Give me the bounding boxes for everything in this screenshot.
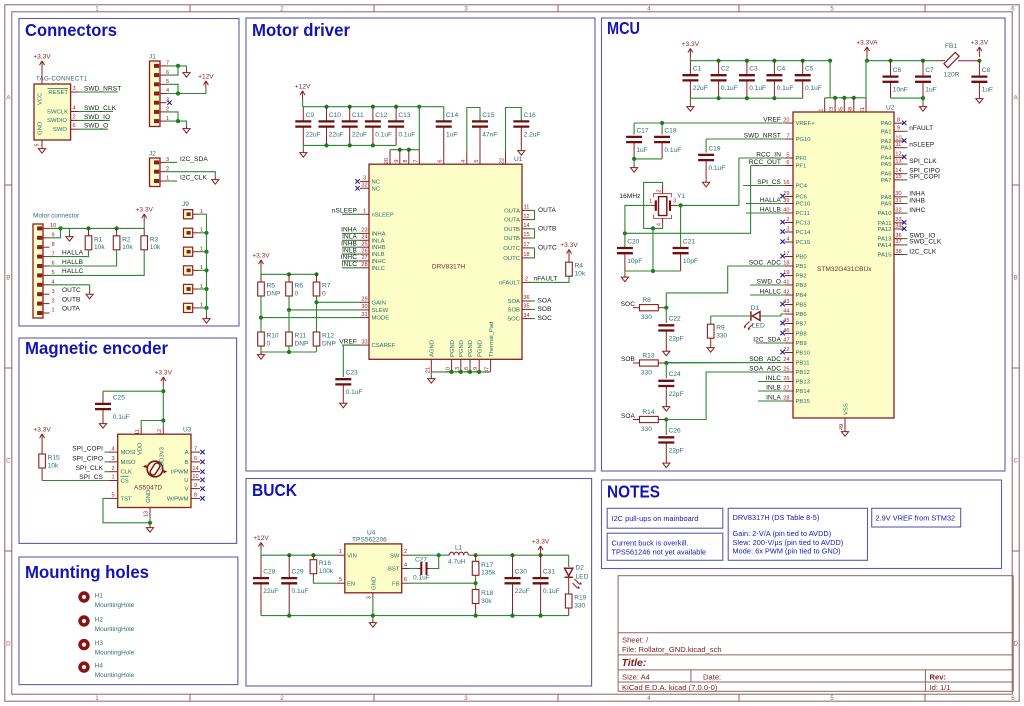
svg-text:4: 4 <box>461 159 467 162</box>
svg-text:R2: R2 <box>122 236 131 243</box>
wire <box>690 97 802 99</box>
pin 4 MOSI <box>109 451 118 453</box>
wire <box>143 222 145 228</box>
wire <box>261 615 569 617</box>
svg-text:C20: C20 <box>627 238 639 245</box>
svg-text:+3.3V: +3.3V <box>155 370 173 377</box>
ground <box>703 180 710 187</box>
wire <box>506 108 522 152</box>
svg-text:1uF: 1uF <box>982 87 993 94</box>
pin 13 PA5 <box>894 163 904 165</box>
svg-text:MISO: MISO <box>121 460 136 466</box>
pin 31 PA9 <box>894 203 904 205</box>
svg-text:OUTA: OUTA <box>538 207 557 214</box>
connector J1 body <box>150 61 161 127</box>
pin 36 PA13 <box>894 238 904 240</box>
svg-text:5: 5 <box>35 143 41 146</box>
pin 44 PB6 <box>785 313 793 315</box>
wire <box>825 97 866 99</box>
no-connect <box>780 321 784 325</box>
wire <box>41 79 43 84</box>
junction <box>660 121 664 125</box>
svg-text:14: 14 <box>192 466 198 472</box>
svg-text:R10: R10 <box>267 333 279 340</box>
svg-text:1: 1 <box>649 198 652 204</box>
no-connect <box>200 478 204 482</box>
driver U1 body <box>369 164 522 359</box>
no-connect <box>902 155 906 159</box>
wire <box>760 314 785 316</box>
svg-text:HALLA: HALLA <box>62 249 84 256</box>
pin 25 PB12 <box>785 371 793 373</box>
wire <box>681 158 739 205</box>
junction <box>348 143 352 147</box>
wire <box>676 205 681 248</box>
svg-text:INLC: INLC <box>372 266 386 272</box>
svg-text:LED: LED <box>576 574 589 581</box>
svg-text:INLB: INLB <box>372 252 385 258</box>
wire <box>198 269 207 271</box>
svg-text:C21: C21 <box>683 238 695 245</box>
svg-text:OUTB: OUTB <box>62 296 80 303</box>
wire <box>390 149 419 151</box>
svg-text:30: 30 <box>361 304 367 310</box>
svg-text:0.1uF: 0.1uF <box>708 165 725 172</box>
svg-text:I2C pull-ups on mainboard: I2C pull-ups on mainboard <box>612 514 699 523</box>
svg-text:+3.3V: +3.3V <box>252 253 270 260</box>
svg-text:3: 3 <box>363 176 366 182</box>
svg-text:1: 1 <box>819 108 825 111</box>
ground <box>707 345 714 352</box>
pin 1 nSLEEP <box>360 213 369 215</box>
svg-text:nFAULT: nFAULT <box>909 125 933 132</box>
power +3.3V <box>161 377 166 385</box>
ground <box>66 234 73 241</box>
pin 21 <box>865 98 867 112</box>
pin 12 VDD3V3 stub <box>162 427 164 434</box>
svg-text:MountingHole: MountingHole <box>95 602 135 609</box>
svg-text:47nF: 47nF <box>482 131 497 138</box>
svg-text:2.9V VREF from STM32: 2.9V VREF from STM32 <box>876 513 956 522</box>
svg-text:330: 330 <box>641 314 652 321</box>
svg-text:17: 17 <box>523 242 529 248</box>
svg-text:MOSI: MOSI <box>121 450 136 456</box>
svg-text:SPI_CLK: SPI_CLK <box>909 158 937 165</box>
wire <box>431 371 490 373</box>
svg-text:SWCLK: SWCLK <box>47 109 68 115</box>
svg-text:2: 2 <box>72 114 75 120</box>
no-connect <box>902 138 906 142</box>
svg-text:10pF: 10pF <box>683 258 698 265</box>
junction <box>717 96 721 100</box>
junction <box>348 105 352 109</box>
capacitor C26 <box>665 443 667 461</box>
svg-text:MountingHole: MountingHole <box>95 626 135 633</box>
note box note buck <box>607 533 723 560</box>
junction <box>539 553 543 557</box>
wire <box>410 568 418 570</box>
wire <box>206 214 208 316</box>
wire <box>705 139 707 153</box>
svg-text:PA1: PA1 <box>881 129 892 135</box>
svg-text:+3.3V: +3.3V <box>135 207 153 214</box>
svg-text:22uF: 22uF <box>263 588 278 595</box>
junction <box>324 105 328 109</box>
no-connect <box>200 486 204 490</box>
no-connect <box>355 179 359 183</box>
svg-text:PA11: PA11 <box>878 221 892 227</box>
svg-text:TST: TST <box>121 496 133 502</box>
junction <box>717 59 721 63</box>
power +3.3V <box>259 260 264 269</box>
svg-text:29: 29 <box>361 297 367 303</box>
svg-text:DRV8317H: DRV8317H <box>432 264 465 271</box>
svg-text:GAIN: GAIN <box>372 300 386 306</box>
wire <box>79 119 111 121</box>
svg-text:SOC: SOC <box>621 301 636 308</box>
svg-text:PB11: PB11 <box>796 361 810 367</box>
svg-text:Id: 1/1: Id: 1/1 <box>930 683 951 692</box>
svg-text:C6: C6 <box>893 67 902 74</box>
wire <box>167 121 187 126</box>
capacitor C22 <box>665 331 667 349</box>
svg-text:2: 2 <box>280 6 284 13</box>
svg-text:C31: C31 <box>543 569 555 576</box>
wire <box>313 577 336 583</box>
pin 29 GAIN <box>360 301 369 303</box>
svg-text:OUTB: OUTB <box>504 236 520 242</box>
svg-text:0.1uF: 0.1uF <box>543 588 560 595</box>
svg-text:nFAULT: nFAULT <box>499 280 521 286</box>
wire <box>61 227 145 229</box>
pin 10 PGND <box>451 359 453 372</box>
svg-text:C25: C25 <box>113 394 125 401</box>
wire <box>167 180 178 182</box>
capacitor C7 <box>922 61 924 77</box>
pin 47 PB9 <box>785 342 793 344</box>
svg-text:VREF+: VREF+ <box>796 121 816 127</box>
svg-text:RESET: RESET <box>48 90 68 96</box>
wire <box>666 372 784 420</box>
svg-text:SOA: SOA <box>508 299 521 305</box>
svg-text:2: 2 <box>656 189 662 192</box>
svg-text:22uF: 22uF <box>515 588 530 595</box>
svg-text:6: 6 <box>786 160 789 166</box>
wire <box>198 213 207 215</box>
svg-text:3: 3 <box>673 198 676 204</box>
pin 5 CPH lead <box>479 127 481 165</box>
wire <box>867 60 939 62</box>
pin 13 PGND <box>460 359 462 372</box>
no-connect <box>200 470 204 474</box>
ground <box>663 349 670 356</box>
wire <box>633 159 635 165</box>
junction <box>888 59 892 63</box>
svg-text:HALLC: HALLC <box>760 288 782 295</box>
wire <box>634 158 662 160</box>
svg-text:3: 3 <box>367 596 373 599</box>
wire <box>317 301 361 303</box>
connector J9 pin 3 <box>184 247 193 256</box>
svg-text:22pF: 22pF <box>669 447 684 454</box>
pin 6 PF1 <box>785 165 793 167</box>
pin 30 SLEW <box>360 309 369 311</box>
wire <box>372 616 374 620</box>
pin 14 PA6 <box>894 173 904 175</box>
wire <box>665 363 667 378</box>
pin 2 CLK <box>109 471 118 473</box>
svg-text:W/PWM: W/PWM <box>167 496 189 502</box>
pin 19 PGND <box>478 359 480 372</box>
resistor R1 <box>88 228 90 235</box>
crystal case brackets <box>654 194 672 198</box>
svg-text:SPI_CS: SPI_CS <box>757 179 781 186</box>
svg-text:21: 21 <box>425 367 431 373</box>
svg-text:INLC: INLC <box>766 375 781 382</box>
pin 4 SWCLK <box>71 111 79 113</box>
pin 24 PB11 <box>785 362 793 364</box>
svg-text:OUTA: OUTA <box>62 306 81 313</box>
svg-text:5: 5 <box>111 493 114 499</box>
svg-text:SLEW: SLEW <box>372 308 389 314</box>
svg-text:PA9: PA9 <box>881 202 892 208</box>
svg-text:OUTC: OUTC <box>503 246 520 252</box>
svg-text:18: 18 <box>523 252 529 258</box>
svg-text:PA4: PA4 <box>881 155 892 161</box>
junction <box>651 226 655 230</box>
wire <box>261 273 317 275</box>
no-connect <box>780 273 784 277</box>
svg-text:8: 8 <box>51 242 54 248</box>
wire <box>198 232 207 234</box>
svg-text:2: 2 <box>404 549 407 555</box>
pin 17 PB0 <box>785 256 793 258</box>
power +3.3V <box>688 48 693 57</box>
svg-text:28: 28 <box>783 395 789 401</box>
svg-text:8: 8 <box>194 493 197 499</box>
svg-text:+12V: +12V <box>198 74 214 81</box>
capacitor C1 <box>689 61 691 75</box>
wire <box>103 498 150 522</box>
svg-text:OUTC: OUTC <box>503 256 520 262</box>
svg-text:PB12: PB12 <box>796 370 810 376</box>
svg-text:FB1: FB1 <box>945 43 957 50</box>
svg-text:10nF: 10nF <box>893 87 908 94</box>
svg-text:B: B <box>6 275 10 282</box>
junction <box>459 370 463 374</box>
wire <box>689 57 691 61</box>
svg-text:Motor connector: Motor connector <box>33 212 80 219</box>
pin 12 OUT <box>522 219 531 221</box>
pin 18 OUT <box>522 257 531 259</box>
junction <box>651 269 655 273</box>
pin 2 nFAULT <box>522 281 531 283</box>
junction <box>204 306 208 310</box>
junction <box>664 361 668 365</box>
pin 9 VM <box>399 150 401 165</box>
wire <box>167 88 206 94</box>
wire <box>103 390 163 392</box>
svg-text:I2C_CLK: I2C_CLK <box>180 175 208 182</box>
svg-text:1uF: 1uF <box>925 87 936 94</box>
svg-text:37: 37 <box>895 239 901 245</box>
ground <box>212 177 219 184</box>
LED D2 <box>565 568 573 577</box>
pin 16 PGND <box>469 359 471 372</box>
wire <box>661 123 663 135</box>
svg-text:INLA: INLA <box>766 394 781 401</box>
svg-text:1uF: 1uF <box>446 131 457 138</box>
wire <box>372 598 374 616</box>
pin 27 PB14 <box>785 390 793 392</box>
wire <box>665 420 667 435</box>
svg-text:OUTA: OUTA <box>504 208 520 214</box>
junction <box>204 231 208 235</box>
resistor R5 <box>260 274 262 282</box>
svg-text:V: V <box>185 487 189 493</box>
svg-text:PC14: PC14 <box>796 230 811 236</box>
svg-text:10k: 10k <box>122 244 133 251</box>
no-connect <box>780 331 784 335</box>
svg-text:H1: H1 <box>95 593 104 600</box>
svg-text:0.1uF: 0.1uF <box>346 389 363 396</box>
junction <box>477 370 481 374</box>
svg-text:H3: H3 <box>95 640 104 647</box>
junction <box>842 96 846 100</box>
svg-text:PF1: PF1 <box>796 164 807 170</box>
svg-text:GND: GND <box>38 122 44 135</box>
svg-text:Mounting holes: Mounting holes <box>25 562 149 582</box>
wire <box>419 107 443 121</box>
pin 28 INLC <box>360 267 369 269</box>
svg-text:2: 2 <box>525 277 528 283</box>
ground <box>300 150 307 157</box>
mounting hole H4 <box>78 661 89 672</box>
wire <box>105 471 109 473</box>
capacitor C25 <box>102 391 104 404</box>
wire <box>430 555 439 568</box>
svg-text:7: 7 <box>413 159 419 162</box>
wire <box>665 308 667 323</box>
svg-text:OUTC: OUTC <box>62 287 81 294</box>
pin 1 <box>824 98 826 112</box>
resistor R10 <box>258 332 265 346</box>
svg-text:39: 39 <box>783 198 789 204</box>
svg-text:R17: R17 <box>481 562 493 569</box>
power +12V <box>259 542 264 550</box>
wire <box>50 250 89 257</box>
junction <box>664 306 668 310</box>
svg-text:PA5: PA5 <box>881 162 892 168</box>
svg-text:SOA: SOA <box>621 413 636 420</box>
svg-text:18: 18 <box>783 260 789 266</box>
svg-text:0: 0 <box>267 340 271 347</box>
junction <box>539 614 543 618</box>
svg-text:C17: C17 <box>636 127 648 134</box>
svg-text:0.1uF: 0.1uF <box>664 147 681 154</box>
connector J9 pin 4 <box>184 266 193 275</box>
svg-text:MountingHole: MountingHole <box>95 649 135 656</box>
wire <box>198 251 207 253</box>
svg-text:NC: NC <box>372 179 381 185</box>
svg-text:6: 6 <box>404 577 407 583</box>
power +3.3V <box>977 47 982 57</box>
svg-text:6: 6 <box>1011 6 1015 13</box>
svg-text:PC6: PC6 <box>796 195 808 201</box>
svg-text:C2: C2 <box>721 66 730 73</box>
svg-text:2: 2 <box>51 298 54 304</box>
svg-text:C5: C5 <box>805 66 814 73</box>
section box Motor driver <box>246 18 595 471</box>
wire <box>288 296 290 352</box>
svg-text:INLC: INLC <box>342 261 357 268</box>
junction <box>287 553 291 557</box>
svg-text:R14: R14 <box>642 409 654 416</box>
connector Motor pin 2 <box>37 302 42 305</box>
svg-text:PA13: PA13 <box>878 237 893 243</box>
svg-text:0.1uF: 0.1uF <box>413 575 430 582</box>
pin 40 PC11 <box>785 212 793 214</box>
wire <box>866 57 868 61</box>
svg-text:C27: C27 <box>415 557 427 564</box>
capacitor C24 <box>665 386 667 404</box>
svg-text:PF0: PF0 <box>796 156 808 162</box>
capacitor C20 <box>624 253 626 271</box>
junction <box>977 59 981 63</box>
svg-text:10: 10 <box>895 135 901 141</box>
no-connect <box>780 239 784 243</box>
pin 2 case <box>662 186 664 194</box>
svg-text:R16: R16 <box>319 560 331 567</box>
pin 7 PG10 <box>785 138 793 140</box>
svg-text:R6: R6 <box>295 283 304 290</box>
wire <box>302 99 304 107</box>
svg-text:TPS562206: TPS562206 <box>352 536 387 543</box>
svg-text:10: 10 <box>192 474 198 480</box>
inductor L1 <box>449 552 468 555</box>
svg-text:6: 6 <box>438 159 444 162</box>
svg-text:DNP: DNP <box>322 340 337 347</box>
junction <box>450 370 454 374</box>
svg-text:15: 15 <box>895 174 901 180</box>
resistor R7 <box>316 274 318 282</box>
svg-text:PB10: PB10 <box>796 351 811 357</box>
wire <box>625 205 651 248</box>
svg-text:C16: C16 <box>524 112 536 119</box>
encoder U3 rotation symbol <box>147 461 163 477</box>
capacitor C5 <box>802 61 804 75</box>
wire <box>167 112 179 121</box>
encoder U3 body <box>118 434 191 507</box>
svg-text:VREF: VREF <box>763 116 781 123</box>
svg-text:2: 2 <box>786 217 789 223</box>
capacitor C17 <box>633 142 635 159</box>
capacitor C15 <box>472 120 488 122</box>
wire <box>167 172 216 177</box>
svg-text:0.1uF: 0.1uF <box>113 414 130 421</box>
power +12V <box>300 91 305 99</box>
svg-text:32: 32 <box>895 207 901 213</box>
section box MCU <box>602 18 1006 471</box>
pin 6 CP lead <box>443 127 445 165</box>
wire <box>922 98 924 104</box>
svg-text:VIN: VIN <box>347 554 357 560</box>
wire <box>666 362 784 365</box>
resistor R8 <box>633 307 640 309</box>
capacitor C18 <box>661 142 663 159</box>
svg-text:C3: C3 <box>749 66 758 73</box>
svg-text:SPI_COPI: SPI_COPI <box>72 446 103 453</box>
